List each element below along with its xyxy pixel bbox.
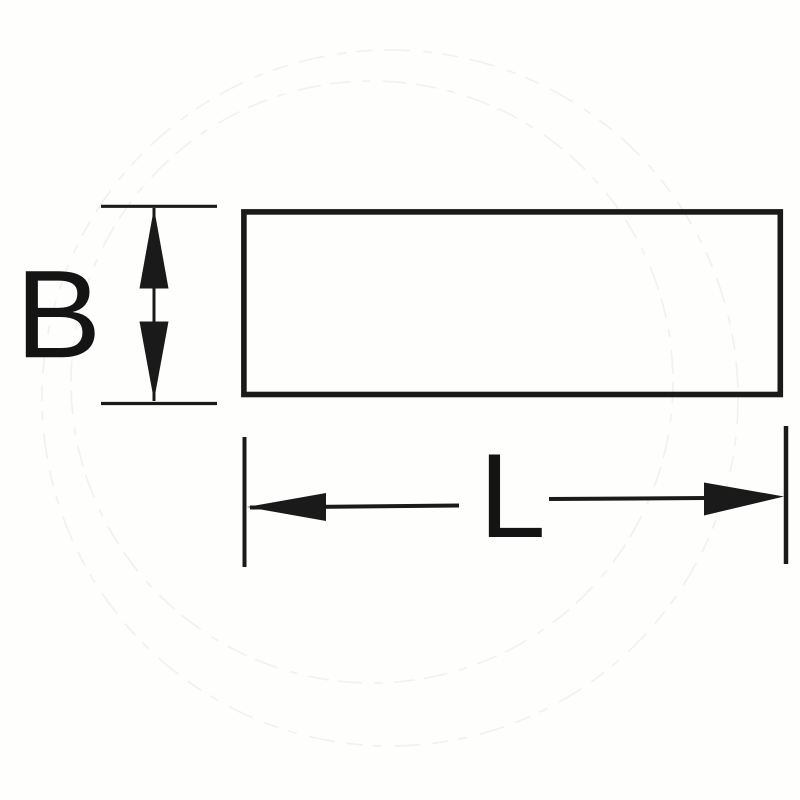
B dimension line <box>153 208 156 401</box>
L right extension line <box>784 426 789 564</box>
B arrow up <box>140 208 169 289</box>
svg-text:L: L <box>479 429 546 563</box>
rectangle (key body) <box>244 212 780 395</box>
watermark inner circle <box>71 81 673 683</box>
L left extension line <box>243 437 247 567</box>
B arrow down <box>140 322 169 401</box>
L arrow right <box>704 483 784 516</box>
L dimension line left segment <box>250 506 459 508</box>
svg-text:B: B <box>15 244 101 384</box>
watermark outer circle <box>42 50 738 746</box>
B top extension line <box>101 205 217 208</box>
B bottom extension line <box>101 402 217 405</box>
L dimension line right segment <box>549 498 706 499</box>
L arrow left <box>247 493 326 521</box>
